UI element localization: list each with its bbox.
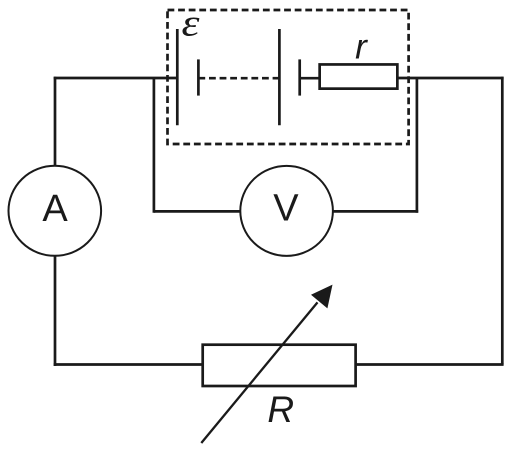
svg-text:ε: ε bbox=[182, 3, 200, 45]
svg-text:V: V bbox=[273, 188, 299, 230]
svg-text:r: r bbox=[355, 28, 368, 67]
svg-text:A: A bbox=[42, 188, 68, 230]
svg-text:R: R bbox=[267, 389, 294, 430]
